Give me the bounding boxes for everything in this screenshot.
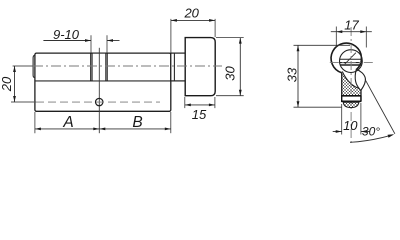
svg-text:A: A	[62, 114, 73, 131]
svg-text:20: 20	[0, 76, 14, 92]
svg-text:17: 17	[344, 17, 359, 32]
svg-text:33: 33	[285, 67, 300, 82]
svg-text:30: 30	[222, 66, 237, 81]
svg-text:10: 10	[343, 118, 358, 133]
svg-text:15: 15	[192, 107, 207, 122]
svg-text:30°: 30°	[362, 125, 380, 139]
svg-text:B: B	[132, 114, 142, 131]
svg-text:9-10: 9-10	[53, 27, 80, 42]
svg-text:20: 20	[183, 6, 199, 21]
